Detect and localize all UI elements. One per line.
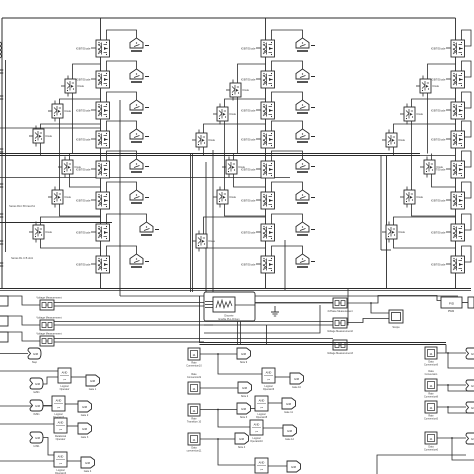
- wire SQ4 down to AND4: [218, 439, 255, 465]
- svg-text:11: 11: [192, 438, 195, 442]
- junction RM1: [370, 302, 372, 304]
- svg-text:Conversion6: Conversion6: [424, 448, 439, 451]
- logic block MAND1: [262, 368, 275, 391]
- IGBT/Diode block Cm2: [400, 107, 424, 121]
- wire mini Cm1 top stub: [422, 76, 424, 80]
- left edge cut block source 2: [0, 316, 8, 326]
- svg-text:conversion11: conversion11: [187, 449, 202, 452]
- svg-text:G/M: G/M: [242, 386, 248, 390]
- IGBT/Diode block A5: [76, 161, 110, 178]
- subsystem frame vertical x206: [205, 162, 207, 292]
- svg-text:Operator: Operator: [56, 438, 66, 441]
- wire block A6 to DC source: [107, 182, 137, 192]
- svg-text:AND: AND: [266, 371, 272, 375]
- wire left edge chain2: [0, 405, 52, 407]
- Goto tag GT1: [86, 375, 100, 391]
- DC voltage source A7s: [140, 222, 159, 235]
- wire mini Am1 bottom: [72, 93, 74, 154]
- top DC bus wire: [2, 17, 456, 19]
- wire mini Cm1 bottom: [427, 93, 429, 154]
- IGBT/Diode block Am6: [29, 225, 53, 239]
- svg-text:Diode: Diode: [239, 166, 246, 169]
- wire LB4 out: [67, 460, 81, 462]
- wire mini Cm5 bottom: [412, 204, 456, 216]
- wire mini Cm3 top stub: [388, 130, 390, 134]
- Goto tag GT3: [78, 423, 92, 439]
- svg-text:IGBT/Diode: IGBT/Diode: [76, 230, 91, 234]
- wire block B2 to DC source: [272, 61, 303, 71]
- svg-text:3-Phase Measurement: 3-Phase Measurement: [327, 310, 353, 313]
- wire mini Bm4 top stub: [228, 157, 230, 161]
- svg-text:IGBT/Diode: IGBT/Diode: [431, 137, 446, 141]
- svg-text:G/M: G/M: [291, 465, 297, 469]
- wire block C3 right loop: [462, 92, 472, 108]
- wire mini Am5 top stub: [54, 187, 56, 191]
- svg-text:G/M: G/M: [286, 402, 292, 406]
- From tag RT2: [466, 380, 474, 391]
- wire block C6 right loop: [462, 182, 472, 198]
- wire mini Am3 bottom: [40, 143, 42, 156]
- logic block LB2: [52, 396, 65, 419]
- IGBT/Diode block Cm4: [420, 160, 444, 174]
- logic block MAND2: [255, 396, 268, 419]
- DC voltage source A6s: [130, 190, 149, 203]
- wire mini Am4 bottom stub: [64, 174, 66, 178]
- IGBT/Diode block Am5: [48, 190, 72, 204]
- svg-text:G/M: G/M: [90, 379, 96, 383]
- wire PLL output: [235, 304, 255, 306]
- wire FT2 to LB2: [43, 405, 52, 407]
- svg-text:AND: AND: [56, 399, 62, 403]
- wire MAND3 out: [263, 427, 283, 429]
- wire mini Am4 bottom: [70, 174, 101, 187]
- svg-text:IGBT/Diode: IGBT/Diode: [241, 137, 256, 141]
- wire block C8 right loop: [462, 246, 472, 262]
- wire mini Bm2 top: [225, 99, 266, 107]
- svg-text:Diode: Diode: [437, 166, 444, 169]
- wire RQ1 branch down: [448, 353, 474, 368]
- left edge cut block source 1: [0, 296, 8, 306]
- wire block B8 to DC source: [272, 246, 303, 256]
- svg-text:G/M: G/M: [35, 382, 41, 386]
- svg-text:Diode: Diode: [46, 135, 53, 138]
- DC voltage source B5s: [296, 159, 315, 172]
- bottom bus wire y290: [0, 290, 471, 292]
- ground: [271, 306, 279, 316]
- wire RQ2 branch down: [448, 385, 474, 391]
- svg-text:Operator6: Operator6: [263, 388, 275, 391]
- svg-text:PWM: PWM: [448, 309, 454, 313]
- DC voltage source B3s: [296, 100, 315, 113]
- measurement block RM2: [333, 318, 347, 328]
- IGBT/Diode block B8: [241, 256, 275, 273]
- logic block LB4: [54, 452, 67, 474]
- logic block MAND3: [250, 420, 263, 443]
- IGBT/Diode block Bm4: [222, 160, 246, 174]
- svg-text:Diode: Diode: [433, 85, 440, 88]
- junction RQ1: [447, 352, 449, 354]
- svg-text:IGBT/Diode: IGBT/Diode: [76, 198, 91, 202]
- wire mini Bm3 bottom: [203, 147, 205, 156]
- DC voltage source B8s: [296, 254, 315, 267]
- svg-text:Diode: Diode: [65, 196, 72, 199]
- wire mini Am4 top: [69, 154, 71, 161]
- svg-text:AND: AND: [254, 423, 260, 427]
- wire mini Cm6 bottom: [394, 239, 456, 248]
- DC voltage source B2s: [296, 69, 315, 82]
- svg-text:IGBT/Diode: IGBT/Diode: [431, 230, 446, 234]
- From tag FT3: [30, 432, 43, 448]
- wire RQ2 out: [437, 384, 466, 386]
- wire mini Cm2 bottom stub: [406, 121, 408, 125]
- Goto tag MT2: [238, 382, 252, 398]
- wire VM2 output pair: [54, 321, 333, 323]
- IGBT/Diode block Bm6: [192, 234, 216, 248]
- svg-text:IGBT/Diode: IGBT/Diode: [76, 262, 91, 266]
- wire mini Am6 top: [41, 217, 101, 225]
- svg-text:Gate 3: Gate 3: [81, 436, 89, 439]
- converter block SQ2: [187, 373, 202, 394]
- DC voltage source A8s: [130, 254, 149, 267]
- svg-text:G/M: G/M: [33, 352, 39, 356]
- Goto tag GT4: [81, 457, 95, 473]
- Goto tag MGT4: [287, 461, 301, 474]
- IGBT/Diode block Am1: [61, 79, 85, 93]
- svg-text:Diode: Diode: [209, 139, 216, 142]
- svg-text:Gate 11: Gate 11: [284, 411, 293, 414]
- svg-text:G/M: G/M: [82, 427, 88, 431]
- svg-text:G/M: G/M: [82, 405, 88, 409]
- DC voltage source B7s: [296, 222, 315, 235]
- svg-text:Diode: Diode: [243, 89, 250, 92]
- svg-text:IGBT/Diode: IGBT/Diode: [241, 108, 256, 112]
- svg-text:G/M: G/M: [241, 407, 247, 411]
- wire into tag gm0: [0, 353, 28, 355]
- wire mini Bm6 bottom stub: [198, 248, 200, 252]
- svg-text:IGBT/Diode: IGBT/Diode: [431, 108, 446, 112]
- svg-text:G/M: G/M: [85, 461, 91, 465]
- svg-text:Diode: Diode: [230, 113, 237, 116]
- wire mini Am1 top stub: [67, 76, 69, 80]
- wire RM1 output to junction: [347, 302, 371, 304]
- wire middle-to-right connector y343 (double): [200, 342, 447, 344]
- svg-text:Operator: Operator: [60, 388, 70, 391]
- svg-text:G/M: G/M: [35, 404, 41, 408]
- wire RQ4 out: [437, 437, 466, 439]
- PLL subsystem outer box: [204, 292, 255, 321]
- wire mini Am3 top stub: [35, 126, 37, 130]
- wire mini Cm1 bottom stub: [422, 93, 424, 97]
- wire below PLL 3: [100, 341, 204, 343]
- bottom bus wire y296: [120, 295, 458, 297]
- wire block B7 to DC source: [272, 214, 303, 224]
- IGBT/Diode block C2: [431, 71, 465, 88]
- svg-text:Diode: Diode: [78, 85, 85, 88]
- wire block C4 right loop: [462, 121, 472, 137]
- wire MAND1 out: [275, 376, 290, 378]
- wire RM2 to scope input 2: [347, 319, 389, 323]
- DC voltage source A2s: [130, 69, 149, 82]
- IGBT/Diode block Bm5: [213, 190, 237, 204]
- wire SQ3 out: [200, 409, 237, 411]
- svg-text:IGBT/Diode: IGBT/Diode: [431, 198, 446, 202]
- DC voltage source A5s: [130, 159, 149, 172]
- svg-text:Note 4: Note 4: [238, 446, 246, 449]
- wire mini Cm2 bottom: [411, 121, 413, 156]
- IGBT/Diode block Am3: [29, 129, 53, 143]
- IGBT/Diode block C6: [431, 192, 465, 209]
- wire LB1 out: [71, 376, 86, 378]
- PLL bottom droppers: [237, 321, 239, 344]
- wire mini Cm2 top stub: [406, 104, 408, 108]
- wire mini Bm6 top: [204, 217, 266, 234]
- measurement block VM3: [36, 331, 62, 346]
- svg-text:Gate 2: Gate 2: [81, 414, 89, 417]
- wire mini Cm3 top: [394, 124, 456, 133]
- neutral bus wire y128: [0, 127, 101, 129]
- phase B column wire: [265, 18, 267, 289]
- svg-text:IGBT/Diode: IGBT/Diode: [431, 46, 446, 50]
- IGBT/Diode block A6: [76, 192, 110, 209]
- DC voltage source A1s: [130, 38, 149, 51]
- svg-text:Conversion10: Conversion10: [186, 364, 202, 367]
- svg-text:Conversion5: Conversion5: [424, 417, 439, 420]
- IGBT/Diode block Bm3: [192, 133, 216, 147]
- IGBT/Diode block A7: [76, 224, 110, 241]
- svg-text:11: 11: [429, 384, 432, 388]
- svg-text:Diode: Diode: [209, 240, 216, 243]
- IGBT/Diode block B3: [241, 102, 275, 119]
- svg-text:11: 11: [429, 352, 432, 356]
- wire MT3 to AND2: [251, 408, 256, 410]
- IGBT/Diode block Bm2: [213, 107, 237, 121]
- PID block: [441, 297, 462, 308]
- DC voltage source B6s: [296, 190, 315, 203]
- svg-text:IGBT/Diode: IGBT/Diode: [431, 77, 446, 81]
- IGBT/Diode block A1: [76, 40, 110, 57]
- wire SQ3 down to AND3: [218, 410, 250, 428]
- IGBT/Diode block Bm1: [226, 83, 250, 97]
- DC voltage source B4s: [296, 129, 315, 142]
- svg-text:Enable PLL-Driven: Enable PLL-Driven: [219, 318, 241, 321]
- Goto tag MT1: [237, 348, 251, 364]
- wire mini Am5 bottom: [60, 204, 101, 216]
- svg-text:Gate 1: Gate 1: [89, 388, 97, 391]
- svg-text:Diode: Diode: [65, 110, 72, 113]
- svg-text:Voltage Measurement: Voltage Measurement: [36, 331, 62, 335]
- svg-text:11: 11: [192, 353, 195, 357]
- wire mini Bm1 bottom stub: [232, 97, 234, 101]
- phase A right rail wire: [119, 100, 121, 296]
- IGBT/Diode block B2: [241, 71, 275, 88]
- From tag FT2: [30, 400, 43, 416]
- svg-text:Series RLC B branch1: Series RLC B branch1: [9, 204, 35, 208]
- wire input VM3: [0, 332, 40, 341]
- wire block B6 to DC source: [272, 182, 303, 192]
- converter block SQ1: [186, 348, 202, 367]
- converter block RQ1: [424, 347, 439, 366]
- logic block LB1: [58, 368, 71, 391]
- wire mini Bm6 top stub: [198, 231, 200, 235]
- measurement block RM3: [333, 340, 347, 350]
- wire RQ3 out: [437, 406, 466, 408]
- svg-text:IGBT/Diode: IGBT/Diode: [241, 198, 256, 202]
- phase B right rail wire: [284, 240, 286, 290]
- wire mini Bm2 bottom stub: [219, 121, 221, 125]
- wire loop below PLL 2: [204, 305, 320, 333]
- svg-text:Conversion: Conversion: [425, 373, 438, 376]
- wire mini Bm5 bottom: [225, 204, 266, 216]
- wire mini Bm1 top: [238, 64, 266, 83]
- wire block A7 to DC source: [107, 214, 147, 224]
- svg-text:G/M: G/M: [241, 352, 247, 356]
- wire mini Cm4 top stub: [426, 157, 428, 161]
- From tag RT3: [466, 402, 474, 413]
- svg-text:Gate 4: Gate 4: [84, 470, 92, 473]
- wire SQ4 out: [200, 438, 235, 440]
- svg-text:Voltage Measurement3: Voltage Measurement3: [327, 352, 353, 355]
- IGBT/Diode block C8: [431, 256, 465, 273]
- svg-text:11: 11: [192, 409, 195, 413]
- IGBT/Diode block B5: [241, 161, 275, 178]
- svg-text:IGBT/Diode: IGBT/Diode: [431, 262, 446, 266]
- wire mini Cm1 top: [428, 64, 456, 79]
- svg-text:Diode: Diode: [75, 166, 82, 169]
- svg-text:11: 11: [429, 406, 432, 410]
- series RLC branch ticks left edge: [0, 70, 3, 266]
- IGBT/Diode block B1: [241, 40, 275, 57]
- measurement block VM2: [36, 315, 62, 330]
- svg-text:Note 9: Note 9: [240, 361, 248, 364]
- svg-text:IGBT/Diode: IGBT/Diode: [76, 77, 91, 81]
- IGBT/Diode block A2: [76, 71, 110, 88]
- wire block A8 to DC source: [107, 246, 137, 256]
- wire mini Cm4 bottom stub: [426, 174, 428, 178]
- wire FT3 to LB4: [43, 438, 54, 456]
- wire MAND4 out: [268, 465, 287, 467]
- From tag RT4: [466, 433, 474, 444]
- svg-text:Operator8: Operator8: [256, 416, 268, 419]
- svg-text:IGBT/Diode: IGBT/Diode: [76, 46, 91, 50]
- wire FT1 to LB2: [43, 377, 58, 384]
- wire connector vertical x266: [266, 325, 268, 344]
- wire mini Bm3 bottom stub: [198, 147, 200, 151]
- wire block B4 to DC source: [272, 121, 303, 131]
- phase C column wire: [455, 18, 457, 289]
- wire block B1 to DC source: [272, 30, 303, 40]
- left edge cut block source 3: [0, 332, 8, 342]
- DC voltage source A4s: [130, 129, 149, 142]
- Goto tag MGT1: [290, 373, 304, 389]
- wire block C7 right loop: [462, 214, 472, 230]
- wire mini Bm3 top: [204, 124, 266, 133]
- svg-text:Diode: Diode: [399, 231, 406, 234]
- IGBT/Diode block Cm6: [382, 225, 406, 239]
- svg-text:Conversion8: Conversion8: [424, 395, 439, 398]
- subsystem frame vertical x190: [190, 154, 192, 292]
- IGBT/Diode block A3: [76, 102, 110, 119]
- wire connector drop x446: [445, 345, 447, 354]
- junction RQ4: [451, 437, 453, 439]
- wire mini Bm4 top: [233, 154, 235, 161]
- junction RQ3: [447, 406, 449, 408]
- svg-text:Gate 10: Gate 10: [292, 386, 302, 389]
- converter block RQ2: [424, 370, 439, 398]
- wire RQ1 out: [437, 352, 466, 354]
- svg-text:IGBT/Diode: IGBT/Diode: [76, 137, 91, 141]
- From tag gm0: [28, 348, 41, 364]
- wire mini Bm2 bottom: [224, 121, 226, 156]
- wire SQ1 out: [200, 353, 237, 355]
- svg-text:Operator10: Operator10: [250, 440, 263, 443]
- svg-text:Scope: Scope: [392, 325, 400, 329]
- wire block C2 right loop: [462, 61, 472, 77]
- phase C left rail wire: [380, 155, 382, 250]
- IGBT/Diode block C7: [431, 224, 465, 241]
- wire mini Bm4 bottom: [234, 174, 266, 187]
- phase bus wire y178: [0, 177, 290, 179]
- svg-text:Transition 10: Transition 10: [187, 420, 202, 423]
- svg-text:G/M: G/M: [239, 437, 245, 441]
- wire mini Bm2 top stub: [219, 104, 221, 108]
- wire mini Cm2 top: [412, 99, 456, 107]
- junction SQ3: [217, 409, 219, 411]
- bottom bus wire y288 (dark): [0, 288, 471, 290]
- wire mini Am6 top stub: [35, 222, 37, 226]
- measurement block VM1: [36, 295, 62, 310]
- junction SQ1: [217, 353, 219, 355]
- wire LB2 out: [65, 403, 78, 405]
- svg-text:Ia/M1: Ia/M1: [33, 391, 40, 394]
- IGBT/Diode block B6: [241, 192, 275, 209]
- svg-text:PID: PID: [449, 301, 455, 305]
- wire mini Am2 top stub: [54, 101, 56, 105]
- Goto tag MT4: [235, 433, 249, 449]
- wire mini Am5 bottom stub: [54, 204, 56, 208]
- Goto tag MGT3: [283, 425, 297, 441]
- wire RQ4 branch down: [452, 438, 474, 460]
- svg-text:Gate 12: Gate 12: [285, 438, 295, 441]
- series RLC branch inductor left edge: [0, 42, 2, 58]
- left source rail wire 2: [5, 60, 7, 252]
- IGBT/Diode block Cm1: [416, 79, 440, 93]
- Goto tag GT2: [78, 401, 92, 417]
- PLL icon block: [213, 297, 235, 312]
- wire PID out: [462, 302, 468, 304]
- wire block A2 to DC source: [107, 61, 137, 71]
- DC voltage source A3s: [130, 100, 149, 113]
- From tag RT1: [466, 348, 474, 359]
- IGBT/Diode block Am4: [58, 160, 82, 174]
- converter block SQ4: [187, 433, 202, 452]
- phase C left rail elbow: [381, 249, 391, 251]
- svg-text:IGBT/Diode: IGBT/Diode: [241, 46, 256, 50]
- wire bottom right long: [377, 455, 466, 474]
- wire block A5 to DC source: [107, 151, 137, 161]
- wire mini Bm5 top: [225, 156, 266, 191]
- left source rail wire: [1, 18, 3, 289]
- wire mini Cm6 top: [394, 217, 456, 225]
- wire left edge chain4: [0, 460, 54, 462]
- wire VM1 output pair: [54, 302, 333, 304]
- wire left edge chain1: [0, 370, 58, 372]
- converter block RQ3: [424, 401, 439, 420]
- svg-text:AND: AND: [58, 455, 64, 459]
- logic block MAND4: [255, 458, 268, 474]
- IGBT/Diode block B4: [241, 131, 275, 148]
- wire block A1 to DC source: [107, 30, 137, 40]
- svg-text:Diode: Diode: [417, 196, 424, 199]
